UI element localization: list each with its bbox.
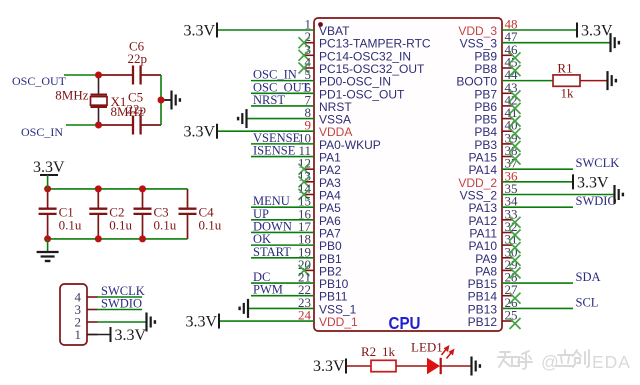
svg-text:PB6: PB6 <box>474 100 497 114</box>
svg-text:SWDIO: SWDIO <box>576 194 617 208</box>
svg-text:START: START <box>253 245 291 259</box>
svg-text:3.3V: 3.3V <box>115 327 147 344</box>
svg-text:LED1: LED1 <box>411 340 443 355</box>
svg-text:SCL: SCL <box>576 295 599 309</box>
svg-text:3.3V: 3.3V <box>33 159 65 176</box>
svg-text:1k: 1k <box>561 86 575 101</box>
svg-text:VDD_2: VDD_2 <box>458 176 497 190</box>
svg-text:PB14: PB14 <box>468 290 498 304</box>
svg-text:PA10: PA10 <box>469 239 498 253</box>
svg-text:VDD_1: VDD_1 <box>319 315 358 329</box>
svg-text:1k: 1k <box>382 344 396 359</box>
svg-text:22p: 22p <box>128 51 148 66</box>
svg-text:3.3V: 3.3V <box>183 23 215 40</box>
svg-text:PA13: PA13 <box>469 201 498 215</box>
svg-text:0.1u: 0.1u <box>59 218 82 233</box>
svg-text:CPU: CPU <box>389 313 421 333</box>
svg-text:R1: R1 <box>557 61 572 76</box>
svg-text:PA15: PA15 <box>469 151 498 165</box>
svg-text:SWDIO: SWDIO <box>101 297 142 311</box>
svg-text:PA11: PA11 <box>469 227 497 241</box>
svg-text:PB13: PB13 <box>468 302 498 316</box>
svg-text:8MHz: 8MHz <box>55 88 88 103</box>
svg-text:EDA: EDA <box>592 352 631 372</box>
svg-text:PA14: PA14 <box>469 163 498 177</box>
svg-text:22p: 22p <box>127 102 147 117</box>
svg-text:0.1u: 0.1u <box>109 218 132 233</box>
svg-text:PA9: PA9 <box>475 252 497 266</box>
svg-text:PB3: PB3 <box>474 138 497 152</box>
svg-text:PB8: PB8 <box>474 62 497 76</box>
svg-text:SDA: SDA <box>576 270 601 284</box>
svg-text:PB9: PB9 <box>474 49 497 63</box>
svg-text:3.3V: 3.3V <box>185 314 217 331</box>
svg-text:3.3V: 3.3V <box>577 174 609 191</box>
svg-text:3.3V: 3.3V <box>313 358 345 375</box>
svg-text:PB12: PB12 <box>468 315 498 329</box>
svg-text:OSC_OUT: OSC_OUT <box>12 74 67 88</box>
svg-text:BOOT0: BOOT0 <box>456 75 497 89</box>
svg-text:PWM: PWM <box>253 283 283 297</box>
svg-text:PA8: PA8 <box>475 264 497 278</box>
svg-text:0.1u: 0.1u <box>199 218 222 233</box>
svg-text:PB5: PB5 <box>474 113 497 127</box>
svg-text:@: @ <box>541 352 559 372</box>
svg-text:VSS_2: VSS_2 <box>460 189 498 203</box>
svg-text:VSS_3: VSS_3 <box>460 37 498 51</box>
svg-text:VDD_3: VDD_3 <box>458 24 497 38</box>
svg-text:SWCLK: SWCLK <box>576 156 620 170</box>
svg-text:PB7: PB7 <box>474 87 497 101</box>
svg-text:0.1u: 0.1u <box>154 218 177 233</box>
svg-text:PB15: PB15 <box>468 277 498 291</box>
svg-text:3.3V: 3.3V <box>183 124 215 141</box>
svg-text:PA12: PA12 <box>469 214 498 228</box>
svg-text:R2: R2 <box>361 344 376 359</box>
svg-text:NRST: NRST <box>253 93 285 107</box>
svg-text:PB4: PB4 <box>474 125 497 139</box>
svg-text:1: 1 <box>75 327 82 342</box>
svg-text:OSC_IN: OSC_IN <box>21 125 63 139</box>
svg-text:3.3V: 3.3V <box>581 23 613 40</box>
svg-text:ISENSE: ISENSE <box>253 144 296 158</box>
